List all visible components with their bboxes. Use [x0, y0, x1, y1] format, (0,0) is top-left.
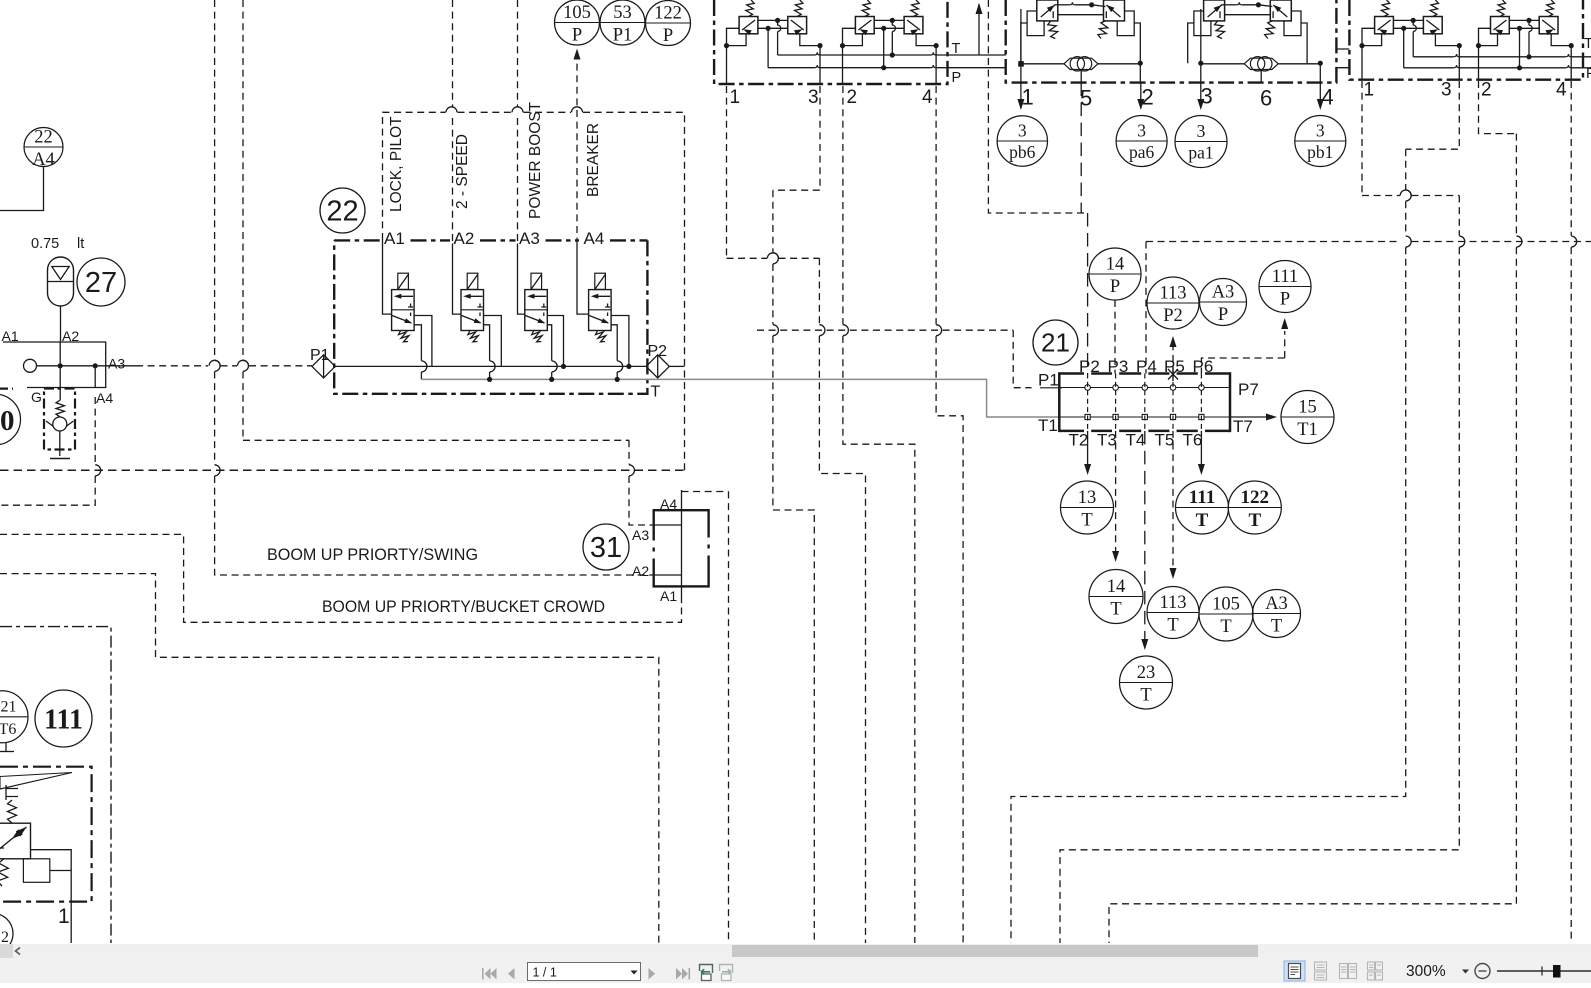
svg-text:pb1: pb1 — [1307, 142, 1333, 162]
bank2 dash-dot enclosure — [1006, 0, 1337, 83]
wire valve drain drop x=421.4 — [414, 325, 421, 361]
net 14/P to block21 P3 — [1114, 300, 1116, 374]
svg-text:P: P — [952, 70, 962, 86]
svg-text:A3: A3 — [519, 229, 540, 248]
heavy dash-dot box 22 — [334, 239, 647, 241]
wire column to valve 461.0 — [453, 244, 462, 315]
bank1 P collector line — [768, 67, 814, 69]
valve 111 pilot ticks — [6, 785, 18, 800]
svg-text:3: 3 — [1441, 80, 1452, 101]
bank2 link line with ticks — [1225, 14, 1271, 16]
svg-text:P: P — [663, 26, 673, 46]
circle tag 111/T bold — [1176, 481, 1229, 534]
svg-text:3: 3 — [1018, 121, 1027, 141]
svg-text:A3: A3 — [632, 527, 649, 543]
wire column to valve 588.6 — [577, 244, 589, 315]
svg-text:2: 2 — [847, 87, 858, 108]
net port3 bank1 descending — [773, 86, 820, 190]
wire accumulator to valve block — [60, 306, 62, 343]
svg-text:A2: A2 — [632, 563, 649, 579]
net A3 of block31 horizontal y=440.3 — [243, 439, 629, 441]
svg-text:P1: P1 — [1038, 371, 1059, 390]
bank2 pilot box left — [1037, 0, 1058, 21]
svg-text:A4: A4 — [660, 496, 677, 512]
bank2 port5 wire — [1080, 70, 1082, 83]
top tag circle 122/P — [646, 1, 691, 46]
svg-text:22: 22 — [34, 128, 53, 148]
wire A4 net down from valve block — [94, 366, 96, 388]
bank1 pilot box 787.8 — [788, 17, 807, 34]
net T5 to 113/T — [1172, 431, 1174, 570]
bank3 pilot box A — [1375, 17, 1394, 34]
bank3 pair links — [1509, 19, 1539, 21]
circle tag 3/pa6 — [1116, 116, 1167, 167]
svg-text:1: 1 — [1022, 85, 1034, 110]
net T6 to 111/T — [1200, 431, 1202, 466]
single page layout icon selected — [1284, 961, 1305, 981]
P supply line inside box22 — [335, 365, 648, 367]
svg-text:T: T — [1167, 616, 1178, 636]
wire P2 out to boundary column — [669, 365, 684, 367]
svg-text:P6: P6 — [1193, 357, 1214, 376]
bank2 shuttle valve right — [1244, 58, 1278, 69]
svg-text:14: 14 — [1106, 255, 1125, 275]
svg-text:T2: T2 — [1069, 431, 1089, 450]
circle tag 3/pb6 — [997, 116, 1047, 166]
T P continuation lines between bank2 and bank3 — [1336, 49, 1349, 68]
pilot column A4 breaker with arrow to 105/P — [574, 49, 581, 60]
svg-text:3: 3 — [808, 87, 819, 108]
svg-text:111: 111 — [44, 705, 83, 736]
circle tag 21 — [1033, 320, 1078, 365]
svg-text:23: 23 — [1137, 663, 1156, 683]
bank2 port4 wire — [1319, 64, 1321, 83]
svg-text:A3: A3 — [108, 356, 125, 372]
svg-text:T: T — [1248, 510, 1261, 531]
block31 body — [654, 510, 709, 586]
svg-text:pa1: pa1 — [1188, 143, 1213, 163]
svg-text:21: 21 — [1, 699, 17, 716]
bank2 top wire with dot — [1054, 4, 1070, 6]
relief valve poppet circle — [53, 417, 67, 431]
bank2 outer wires to shuttle — [1188, 23, 1194, 63]
scrollbar left arrow — [16, 948, 21, 955]
bank2 outer wires to shuttle — [1021, 23, 1027, 63]
wire valve feed drop x=431.9 — [414, 316, 432, 367]
svg-text:LOCK, PILOT: LOCK, PILOT — [388, 116, 405, 212]
bank2 pilot box right — [1270, 0, 1291, 21]
wire valve drain drop x=489.6 — [484, 325, 490, 361]
wire accumulator line down to relief valve — [59, 342, 61, 400]
circle tag 14/T — [1089, 570, 1143, 624]
svg-text:T: T — [1110, 600, 1121, 620]
bank3 pilot box B — [1423, 17, 1442, 34]
bank2 link line with ticks — [1058, 14, 1104, 16]
svg-text:31: 31 — [590, 532, 622, 564]
bank2 port3 wire — [1200, 9, 1202, 61]
wire valve feed drop x=563.5 — [547, 316, 563, 367]
bank3 drops to collectors — [1412, 20, 1414, 25]
boundary heavy dash fragment at left edge — [0, 388, 13, 390]
valve 111 main body — [0, 823, 31, 859]
svg-text:T3: T3 — [1097, 431, 1117, 450]
circle tag 111/P — [1259, 261, 1311, 313]
previous view icon — [700, 965, 713, 981]
bank1 pair lower link — [758, 27, 788, 29]
net block21 P5 up-arrow to 113/P2 — [1172, 340, 1174, 374]
junction dots on T line — [487, 377, 492, 382]
svg-text:T4: T4 — [1126, 431, 1146, 450]
relief valve G dash-dot box — [44, 389, 75, 450]
valve 111 pilot box — [23, 859, 49, 883]
net bank3 port1 descending — [1361, 81, 1363, 196]
block21 manifold body — [1059, 372, 1230, 375]
left valve block A1-A4 body — [3, 342, 106, 388]
bank2 port6 wire — [1260, 70, 1262, 83]
net port4 bank1 descending — [935, 86, 937, 325]
bank3 T collector — [1413, 56, 1454, 58]
svg-text:A1: A1 — [2, 328, 19, 344]
svg-text:3: 3 — [1316, 121, 1325, 141]
svg-text:5: 5 — [1080, 86, 1092, 111]
wire from 22/A4 tag to left edge — [0, 167, 44, 211]
bank1 pilot box 739.1 — [739, 17, 758, 34]
svg-text:T5: T5 — [1155, 431, 1175, 450]
svg-text:pb6: pb6 — [1009, 142, 1036, 162]
zoom dropdown arrow — [1462, 970, 1469, 974]
valve 111 output wire to port 1 — [31, 850, 72, 943]
wire column to valve 391.6 — [383, 244, 392, 315]
bank3 pair links — [1393, 19, 1423, 21]
net bank3 port4 descending — [1570, 81, 1572, 236]
block21 column P2 inside — [1087, 213, 1089, 374]
net to block31 A1 horizontal y=534.4 — [0, 534, 682, 622]
svg-text:1: 1 — [58, 905, 70, 928]
circle tag A3/T — [1253, 590, 1301, 638]
net to block31 A2 horizontal y=573.6 from left — [0, 574, 659, 943]
next view icon — [720, 965, 733, 981]
page number box — [528, 963, 641, 981]
circle tag 15/T1 — [1281, 391, 1334, 444]
svg-text:2: 2 — [1481, 80, 1492, 101]
svg-text:T: T — [1081, 511, 1092, 531]
solenoid pilot valve at x=588.6 — [595, 273, 606, 289]
valve 111 outer box — [0, 767, 92, 902]
relief valve seat wings — [46, 421, 54, 427]
bank2 pilot box left — [1204, 0, 1225, 21]
svg-text:T: T — [1584, 36, 1591, 52]
circle tag 3/pa1 — [1175, 116, 1227, 168]
valve 111 pilot spring — [8, 800, 17, 823]
tank symbol under relief valve — [50, 458, 70, 460]
svg-text:113: 113 — [1159, 593, 1186, 613]
circle tag 113/T — [1147, 587, 1199, 639]
block21 P rail — [1059, 387, 1230, 389]
scrollbar thumb — [732, 945, 1258, 957]
bank2 springs — [1048, 21, 1058, 39]
bank1 left port wire — [727, 28, 740, 45]
valve 111 inner box wire — [50, 870, 71, 872]
net T3 to 14/T — [1115, 431, 1117, 552]
svg-text:P3: P3 — [1108, 357, 1129, 376]
svg-text:2: 2 — [1, 929, 9, 944]
first page icon — [482, 968, 497, 979]
circle tag 23/T — [1120, 656, 1173, 709]
solenoid pilot valve at x=524.8 — [531, 273, 542, 289]
svg-text:P: P — [1586, 66, 1591, 82]
svg-text:2 - SPEED: 2 - SPEED — [454, 134, 471, 209]
circle tag 113/P2 — [1147, 277, 1199, 329]
valve 111 spring lower — [0, 859, 8, 886]
bank1 right port wire — [934, 43, 939, 48]
bank3 pilot box A — [1491, 17, 1510, 34]
junction dot A2 line — [58, 363, 63, 368]
net T2 to 13/T — [1087, 431, 1089, 466]
svg-text:0.75: 0.75 — [31, 236, 59, 252]
svg-text:6: 6 — [1260, 86, 1272, 111]
svg-text:P: P — [1280, 290, 1290, 310]
svg-text:P2: P2 — [1163, 306, 1183, 326]
solenoid pilot valve at x=391.6 — [398, 273, 409, 289]
svg-text:POWER BOOST: POWER BOOST — [527, 101, 544, 219]
svg-text:53: 53 — [613, 3, 632, 23]
wire A3 inside block — [37, 365, 137, 367]
svg-text:P1: P1 — [310, 347, 330, 364]
bank1 right port wire — [817, 43, 822, 48]
svg-text:105: 105 — [1212, 595, 1240, 615]
svg-text:3: 3 — [1197, 121, 1206, 141]
block21 interior columns dashed — [1088, 374, 1202, 431]
circle tag 122/T bold — [1228, 481, 1281, 534]
pilot column A3 from page top — [517, 0, 519, 107]
scrollbar track — [0, 944, 1591, 958]
hop trunk x=214.6 over boundary — [215, 465, 221, 476]
bank2 side loops — [1027, 11, 1044, 36]
bank1 pair upper link — [758, 19, 788, 21]
hop of A4 net over boundary line — [95, 465, 101, 476]
bank2 arrow port1 to 3/pb6 — [1020, 86, 1022, 102]
bank2 arrow port3 to 3/pa1 — [1200, 83, 1202, 103]
block21 P rail port circles — [1085, 385, 1091, 391]
continuous layout icon — [1315, 962, 1327, 980]
svg-text:111: 111 — [1189, 487, 1215, 508]
solenoid pilot valve at x=461.0 — [467, 273, 478, 289]
svg-text:T: T — [651, 384, 661, 401]
orifice star on P5 port — [1168, 368, 1178, 382]
svg-text:4: 4 — [922, 87, 933, 108]
bank2 arrow port2 to 3/pa6 — [1140, 83, 1142, 103]
P1 filter diamond — [312, 355, 335, 378]
block31 internal A4-A1 line — [681, 490, 683, 603]
circle tag 27 — [77, 258, 125, 306]
wire valve drain drop x=617.2 — [611, 325, 617, 361]
svg-text:P4: P4 — [1136, 357, 1157, 376]
svg-text:A2: A2 — [454, 229, 475, 248]
svg-text:14: 14 — [1107, 577, 1126, 597]
svg-text:0: 0 — [0, 405, 15, 437]
bank3 pilot box B — [1539, 17, 1558, 34]
accumulator 27 capsule — [48, 257, 74, 306]
net bank3 port3 descending — [1406, 81, 1460, 149]
svg-text:P1: P1 — [613, 26, 633, 46]
bank1 box stubs to ports — [843, 34, 863, 46]
svg-text:T1: T1 — [1297, 420, 1318, 440]
circle tag 31 — [583, 524, 629, 570]
circle tag 105/T — [1199, 587, 1253, 641]
pilot line below 21/T6 — [5, 743, 7, 752]
top tag circle 53/P1 — [600, 0, 645, 45]
net tank header between banks x=988 — [988, 0, 1088, 213]
svg-text:pa6: pa6 — [1129, 142, 1155, 162]
two page continuous icon — [1368, 962, 1383, 980]
bank3 port wires — [1479, 28, 1491, 45]
bank2 pilot box right — [1104, 0, 1125, 21]
two page layout icon — [1340, 964, 1357, 979]
bank2 port1 wire — [1020, 9, 1022, 61]
svg-text:A4: A4 — [584, 229, 605, 248]
svg-text:P2: P2 — [648, 343, 668, 360]
svg-text:15: 15 — [1298, 398, 1317, 418]
wire valve feed drop x=501.3 — [484, 316, 502, 367]
bank1 pair lower link — [874, 27, 904, 29]
svg-text:T1: T1 — [1038, 416, 1058, 435]
bank1 box stubs to ports — [727, 34, 747, 46]
svg-text:1: 1 — [730, 87, 741, 108]
prev page icon — [508, 968, 515, 979]
svg-text:T: T — [1140, 686, 1151, 706]
svg-text:4: 4 — [1556, 80, 1567, 101]
svg-text:111: 111 — [1272, 267, 1298, 287]
net T4 to 23/T — [1144, 431, 1146, 642]
svg-text:T: T — [1220, 617, 1231, 637]
svg-text:T: T — [952, 41, 961, 57]
svg-text:P5: P5 — [1164, 357, 1185, 376]
net A4 from block31 up to port1 trunk — [682, 491, 729, 493]
svg-text:113: 113 — [1159, 284, 1186, 304]
hop trunk x=214.6 over A3 wire — [215, 360, 221, 371]
net block21 P1 supply from left — [757, 329, 1013, 331]
bank1 pair upper link — [874, 19, 904, 21]
P2 filter diamond — [646, 355, 669, 378]
bank1 pilot box 904.1 — [904, 17, 923, 34]
bank3 drops to collectors — [1528, 20, 1530, 25]
svg-text:4: 4 — [1322, 85, 1334, 110]
svg-text:T6: T6 — [1183, 431, 1203, 450]
pilot column A2 from page top — [452, 0, 454, 107]
net port1 bank1 descending — [726, 86, 728, 258]
svg-text:P: P — [572, 26, 582, 46]
relief valve spring — [56, 400, 64, 417]
svg-text:21: 21 — [1041, 328, 1070, 358]
next page icon — [649, 968, 656, 979]
bank1 arrow up to tank header — [978, 4, 980, 55]
wire valve drain drop x=551.7 — [547, 325, 551, 361]
circle tag 22 — [320, 188, 365, 233]
bank1 left port wire — [843, 28, 856, 45]
svg-text:1 / 1: 1 / 1 — [533, 966, 557, 980]
hop trunk x=243 over A3 wire — [243, 360, 249, 371]
block31 A3 A2 stubs — [654, 524, 682, 526]
wire valve feed drop x=628.9 — [611, 316, 629, 367]
pilot boundary corner up at x=684.5 — [684, 112, 686, 470]
net pilot supply horizontal y=241.5 to block21 P4 — [1146, 241, 1591, 243]
bank1 T collector line — [778, 54, 815, 56]
svg-text:122: 122 — [654, 4, 682, 24]
svg-text:22: 22 — [326, 196, 358, 228]
top tag circle 105/P — [555, 0, 600, 45]
circle tag 3/pb1 — [1295, 116, 1346, 167]
svg-text:T6: T6 — [0, 721, 16, 738]
bank2 shuttle valve left — [1064, 58, 1098, 69]
outer dashed box of group 22 — [383, 112, 446, 240]
bank2 shuttle right port lines — [1198, 61, 1203, 66]
dash-dot boundary x=111 lower left — [0, 627, 111, 943]
arrow T7 to 15/T1 — [1230, 416, 1266, 418]
svg-text:lt: lt — [77, 236, 84, 252]
partial circle tag 0 at page edge — [0, 394, 21, 445]
svg-text:T: T — [1196, 510, 1209, 531]
net A3 jog down x=629 — [628, 440, 630, 464]
net port2 bank1 descending — [842, 86, 844, 325]
bank2 port2 wire — [1139, 64, 1141, 83]
bank3 port wires — [1362, 28, 1375, 45]
bank1 pilot box 855.4 — [855, 17, 874, 34]
last page icon — [676, 968, 690, 979]
circle tag 13/T — [1061, 481, 1114, 534]
bank2 springs — [1215, 21, 1225, 39]
bank2 side loops — [1194, 11, 1211, 36]
wire column to valve 524.8 — [518, 244, 525, 315]
wire A3 dashed from left valve to P1 — [136, 365, 208, 367]
vertical dashed trunk x=214.6 from page top — [214, 0, 216, 360]
toolbar background — [0, 958, 1591, 983]
partial circle tag 21/T6 — [0, 691, 28, 743]
svg-text:A3: A3 — [1265, 594, 1288, 614]
svg-text:P: P — [1218, 305, 1228, 325]
bank2 top wire with dot — [1221, 4, 1237, 6]
bank1 drop dots to T/P lines — [777, 20, 779, 25]
block21 T rail — [1059, 416, 1230, 418]
svg-text:A3: A3 — [1212, 283, 1235, 303]
svg-text:G: G — [31, 389, 42, 405]
svg-text:BOOM UP PRIORTY/BUCKET CROWD: BOOM UP PRIORTY/BUCKET CROWD — [322, 598, 605, 616]
node 22/A4 tag circle — [24, 128, 63, 167]
pilot column A1 — [382, 240, 384, 244]
bank3 P collector — [1404, 67, 1454, 69]
valve 111 T tick — [0, 848, 4, 856]
block21 T rail port squares — [1085, 414, 1090, 419]
svg-text:P7: P7 — [1238, 380, 1259, 399]
zoom slider — [1497, 970, 1591, 972]
circle tag 14/P — [1089, 248, 1141, 300]
svg-text:300%: 300% — [1406, 963, 1446, 980]
svg-text:A2: A2 — [62, 328, 79, 344]
bank1 dash-dot enclosure — [714, 0, 947, 84]
circle tag 111 bold — [35, 690, 92, 747]
valve 111 flow wedge — [0, 773, 72, 790]
svg-text:P2: P2 — [1079, 357, 1100, 376]
svg-text:T: T — [1271, 617, 1282, 637]
svg-text:BOOM UP PRIORTY/SWING: BOOM UP PRIORTY/SWING — [267, 546, 478, 564]
zoom out circle minus — [1475, 964, 1490, 979]
svg-text:A4: A4 — [96, 390, 113, 406]
junction dot A4 line — [93, 363, 98, 368]
bank2 shuttle left port lines — [1018, 61, 1024, 67]
partial circle tag bottom corner — [0, 914, 13, 954]
svg-text:P: P — [1110, 277, 1120, 297]
bank3 dash-dot enclosure — [1349, 0, 1583, 80]
net 111/P and block21 P6 — [1284, 331, 1286, 358]
